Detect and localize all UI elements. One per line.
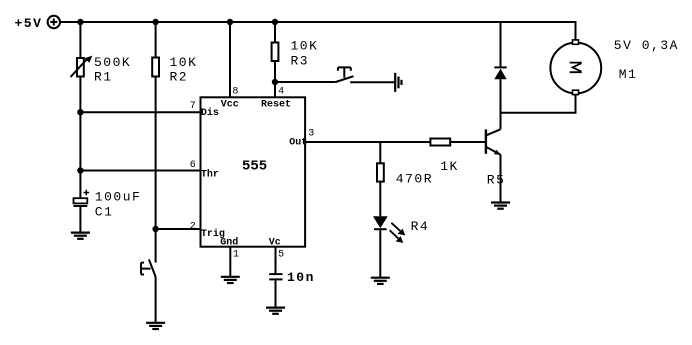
resistor 470R bbox=[377, 163, 384, 181]
svg-text:1: 1 bbox=[233, 250, 239, 261]
wire motor bottom to collector node bbox=[501, 94, 576, 112]
node junction Dis bbox=[77, 109, 83, 115]
wire Trig (pin 2) bbox=[156, 228, 201, 230]
svg-text:7: 7 bbox=[190, 101, 196, 112]
node junction Trig/R2/S2 bbox=[152, 226, 158, 232]
svg-text:10K: 10K bbox=[291, 39, 319, 54]
wire R2 to Trig junction bbox=[155, 77, 157, 230]
wire 555 pin 1 to ground bbox=[229, 247, 231, 277]
svg-text:500K: 500K bbox=[94, 55, 131, 70]
node junction Thr bbox=[77, 167, 83, 173]
wire C2 to ground bbox=[275, 280, 277, 307]
motor M1 bbox=[550, 40, 601, 95]
node junction rail/R3 bbox=[272, 19, 278, 25]
resistor R3 10K bbox=[272, 43, 279, 62]
svg-text:Thr: Thr bbox=[201, 169, 219, 181]
node junction rail/pin8 bbox=[227, 19, 233, 25]
wire C1 to ground bbox=[79, 206, 81, 232]
svg-text:R4: R4 bbox=[411, 219, 430, 234]
svg-text:6: 6 bbox=[190, 160, 196, 171]
pushbutton switch S2 bbox=[141, 259, 156, 277]
pushbutton switch S1 bbox=[336, 67, 354, 82]
wire emitter to ground bbox=[500, 155, 502, 203]
svg-text:5: 5 bbox=[278, 250, 284, 261]
wire 470R to LED bbox=[379, 182, 381, 217]
wire Out to 470R branch bbox=[379, 142, 381, 163]
ground (after S1, rotated) bbox=[395, 73, 401, 92]
ground (C2) bbox=[266, 308, 285, 314]
wire top +5V rail bbox=[60, 22, 576, 40]
svg-text:Reset: Reset bbox=[261, 100, 291, 111]
resistor R2 10K bbox=[152, 58, 159, 77]
svg-text:R1: R1 bbox=[94, 70, 113, 85]
wire S2 to ground bbox=[155, 277, 157, 323]
wire 555 pin 5 to C2 bbox=[275, 247, 277, 274]
wire rail to R2 bbox=[155, 22, 157, 58]
motor letter M (rotated) bbox=[570, 63, 582, 73]
svg-text:3: 3 bbox=[308, 129, 314, 140]
ground (emitter) bbox=[491, 203, 510, 209]
ground (pin 1) bbox=[221, 277, 240, 283]
wire rail to R3 bbox=[274, 22, 276, 43]
transistor R5 (NPN) bbox=[486, 129, 501, 155]
wire switch S1 to ground bbox=[350, 81, 395, 83]
svg-text:10n: 10n bbox=[287, 270, 315, 285]
wire R1 to C1 (through Dis/Thr taps) bbox=[79, 77, 81, 199]
svg-text:Out: Out bbox=[289, 138, 307, 149]
resistor R6 1K bbox=[430, 139, 450, 146]
node junction reset/switch bbox=[272, 79, 278, 85]
svg-text:10K: 10K bbox=[170, 55, 198, 70]
svg-text:R2: R2 bbox=[170, 70, 189, 85]
diode D1 bbox=[494, 67, 506, 79]
LED R4 bbox=[373, 216, 405, 243]
wire rail to 555 pin 8 bbox=[229, 22, 231, 97]
svg-text:Vcc: Vcc bbox=[221, 100, 239, 111]
svg-text:4: 4 bbox=[278, 87, 284, 98]
svg-text:C1: C1 bbox=[95, 205, 114, 220]
svg-text:2: 2 bbox=[190, 222, 196, 233]
wire rail to R1 bbox=[79, 22, 81, 58]
wire Thr (pin 6) bbox=[80, 170, 200, 172]
node junction rail/R1 bbox=[77, 19, 83, 25]
svg-text:8: 8 bbox=[232, 87, 238, 98]
node junction rail/R2 bbox=[152, 19, 158, 25]
wire R3 to 555 pin 4 bbox=[274, 61, 276, 97]
ground (LED) bbox=[371, 278, 390, 284]
ground (S2) bbox=[146, 323, 165, 329]
capacitor C2 10n bbox=[269, 274, 282, 279]
svg-text:100uF: 100uF bbox=[95, 190, 142, 205]
op-amp/timer IC U1 555 bbox=[201, 97, 306, 246]
svg-text:M1: M1 bbox=[619, 67, 638, 82]
svg-text:470R: 470R bbox=[396, 172, 433, 187]
wire 1K to transistor base bbox=[450, 141, 486, 143]
svg-text:Dis: Dis bbox=[201, 107, 219, 119]
wire Dis (pin 7) bbox=[80, 111, 200, 113]
resistor R1 (potentiometer 500K) bbox=[71, 56, 93, 77]
svg-text:+5V: +5V bbox=[15, 16, 43, 31]
svg-text:5V 0,3A: 5V 0,3A bbox=[614, 38, 679, 53]
wire Out (pin 3) to base resistor bbox=[305, 141, 430, 143]
svg-text:R3: R3 bbox=[291, 54, 310, 69]
svg-text:R5: R5 bbox=[487, 173, 506, 188]
ground (C1) bbox=[71, 233, 90, 239]
+5V supply terminal bbox=[48, 16, 60, 28]
svg-text:555: 555 bbox=[242, 158, 267, 174]
svg-text:1K: 1K bbox=[440, 159, 459, 174]
capacitor C1 100uF bbox=[74, 190, 90, 206]
wire LED to ground bbox=[379, 229, 381, 277]
wire diode to collector node bbox=[500, 79, 502, 129]
wire reset node to switch S1 bbox=[275, 81, 336, 83]
wire Trig node to switch S2 bbox=[155, 229, 157, 263]
wire rail branch to diode bbox=[500, 22, 502, 68]
